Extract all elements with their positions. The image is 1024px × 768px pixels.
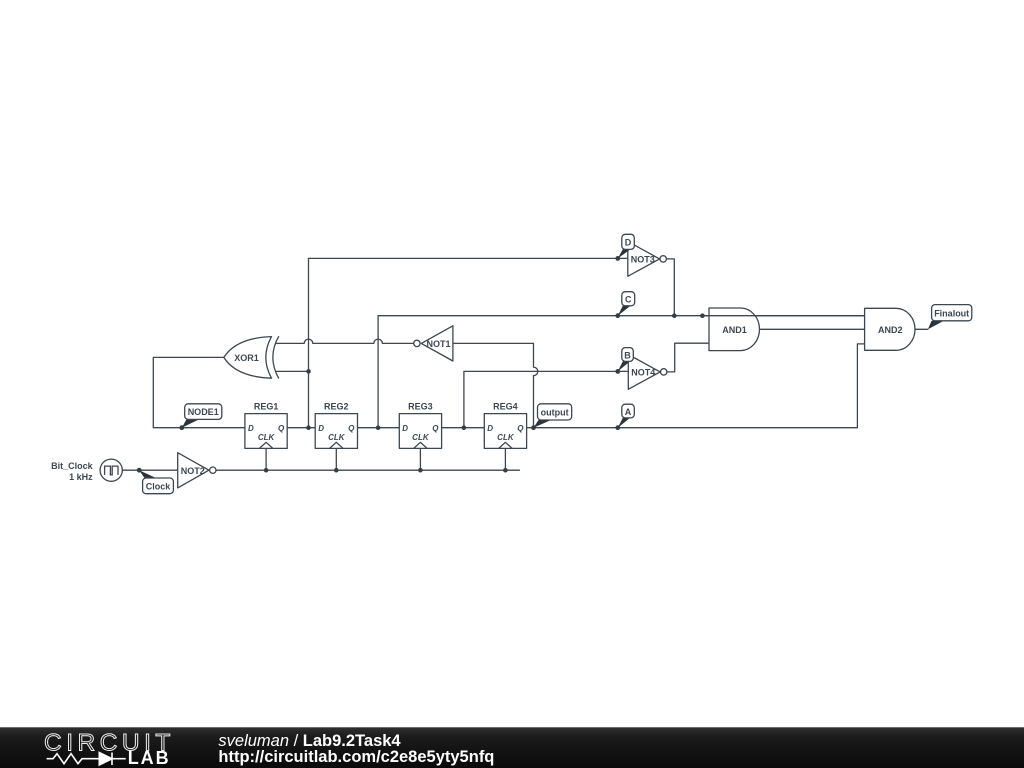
svg-text:CLK: CLK <box>258 433 276 442</box>
junction clock bus REG3 <box>418 468 423 473</box>
svg-text:Q: Q <box>348 424 355 433</box>
wire C net horizontal (REG2 Q to AND2 top input, passes over AND1) <box>378 315 864 317</box>
wire XOR1 bottom input stub <box>277 370 309 372</box>
junction NOT3 drop / C net <box>672 313 677 318</box>
svg-text:D: D <box>318 424 324 433</box>
svg-text:AND2: AND2 <box>878 325 903 335</box>
svg-text:NODE1: NODE1 <box>188 407 219 417</box>
svg-text:Finalout: Finalout <box>934 308 969 318</box>
wire vertical riser at x=308.5 (REG1 Q net) <box>308 258 310 427</box>
svg-text:CLK: CLK <box>497 433 515 442</box>
junction flag A attach <box>615 425 620 430</box>
svg-text:Clock: Clock <box>146 481 172 491</box>
svg-text:NOT2: NOT2 <box>181 466 205 476</box>
wire clock source to NOT2 input <box>122 469 177 471</box>
wire C net redrawn over AND1 <box>702 315 864 317</box>
wire riser REG2 Q to C net <box>377 316 379 428</box>
svg-text:CLK: CLK <box>328 433 346 442</box>
svg-text:LAB: LAB <box>128 748 171 768</box>
wire REG1 CLK riser <box>265 448 267 470</box>
wire AND2 output to Finalout <box>915 328 928 330</box>
wire REG2 Q to REG3 D <box>357 427 399 429</box>
svg-text:output: output <box>541 408 569 418</box>
wire REG1 Q to REG2 D <box>287 427 315 429</box>
wire top horizontal to NOT3 input <box>309 257 628 259</box>
junction riser / REG1-REG2 wire <box>306 425 311 430</box>
svg-text:NOT1: NOT1 <box>426 339 450 349</box>
wire REG3 Q to REG4 D <box>442 427 485 429</box>
wire NOT3 output drop <box>666 259 674 316</box>
svg-text:D: D <box>625 238 632 248</box>
svg-text:REG1: REG1 <box>254 402 279 412</box>
flag B <box>618 348 634 372</box>
wire NOT1 input to REG4 Q riser (hop over NOT4 feed) <box>453 343 538 427</box>
junction XOR bottom input / riser <box>306 369 311 374</box>
junction clock flag attach <box>137 468 142 473</box>
inverter NOT3 <box>628 242 667 277</box>
svg-text:Bit_Clock: Bit_Clock <box>51 461 94 471</box>
CircuitLab logo resistor zigzag and diode <box>47 753 126 766</box>
AND gate AND1 <box>709 308 759 351</box>
svg-text:Q: Q <box>278 424 285 433</box>
junction dots <box>137 256 705 473</box>
wire AND1 top pin stub <box>702 315 709 317</box>
wire XOR1 top input to NOT1 output (with hops) <box>277 339 414 343</box>
svg-text:CLK: CLK <box>412 433 430 442</box>
wire AND1 output to AND2 <box>760 328 865 330</box>
junction AND1 pin / C net <box>700 313 705 318</box>
svg-text:D: D <box>487 424 493 433</box>
svg-text:A: A <box>625 407 632 417</box>
svg-text:Q: Q <box>432 424 439 433</box>
flag A <box>618 404 635 428</box>
svg-text:REG3: REG3 <box>408 402 433 412</box>
flag NODE1 <box>182 404 222 428</box>
wire clock bus NOT2 output to REG4 CLK <box>216 469 519 471</box>
wire REG3 Q riser to NOT4 input <box>464 371 628 427</box>
inverter NOT4 <box>628 355 667 390</box>
wire REG4 Q / A net to AND2 bottom input <box>527 344 865 428</box>
wire REG2 CLK riser <box>335 448 337 470</box>
wire REG4 CLK riser <box>504 448 506 470</box>
svg-text:B: B <box>624 350 631 360</box>
inverter NOT1 (pointing left) <box>414 326 453 361</box>
flag Finalout <box>928 305 972 330</box>
svg-text:Q: Q <box>517 424 524 433</box>
flag C <box>618 292 635 316</box>
junction NOT4 riser / REG3-REG4 wire <box>462 425 467 430</box>
D flip-flop REG2 <box>315 414 357 449</box>
svg-text:NOT3: NOT3 <box>631 254 655 264</box>
junction NODE1 attach <box>179 425 184 430</box>
AND gate AND2 <box>865 308 915 350</box>
junction clock bus REG2 <box>334 468 339 473</box>
wire NOT4 output to AND1 bottom input <box>667 343 709 372</box>
svg-text:D: D <box>248 424 254 433</box>
D flip-flop REG4 <box>484 414 526 449</box>
svg-text:XOR1: XOR1 <box>234 353 259 363</box>
svg-text:C: C <box>625 295 632 305</box>
D flip-flop REG1 <box>245 414 287 449</box>
wire XOR1 output to REG1 D (left loop) <box>153 357 245 427</box>
svg-text:1 kHz: 1 kHz <box>69 472 93 482</box>
wire REG3 CLK riser <box>419 448 421 470</box>
footer bar <box>0 727 1024 768</box>
junction clock bus REG1 <box>264 468 269 473</box>
flag D <box>618 234 635 258</box>
junction flag C attach <box>615 313 620 318</box>
junction clock bus REG4 <box>503 468 508 473</box>
junction NOT1 riser / REG4 Q wire <box>531 425 536 430</box>
junction flag D attach <box>615 256 620 261</box>
svg-text:REG4: REG4 <box>493 402 518 412</box>
inverter NOT2 <box>178 453 216 488</box>
svg-text:http://circuitlab.com/c2e8e5yt: http://circuitlab.com/c2e8e5yty5nfq <box>218 748 494 766</box>
svg-text:D: D <box>402 424 408 433</box>
svg-text:NOT4: NOT4 <box>631 367 655 377</box>
flag Clock <box>139 470 173 494</box>
svg-text:AND1: AND1 <box>722 325 747 335</box>
D flip-flop REG3 <box>399 414 441 449</box>
junction C riser / REG2-REG3 wire <box>376 425 381 430</box>
clock source V1 Bit_Clock <box>100 459 122 481</box>
XOR gate XOR1 <box>224 336 279 378</box>
junction flag B attach <box>615 369 620 374</box>
flag output <box>534 404 572 428</box>
svg-text:REG2: REG2 <box>324 402 349 412</box>
